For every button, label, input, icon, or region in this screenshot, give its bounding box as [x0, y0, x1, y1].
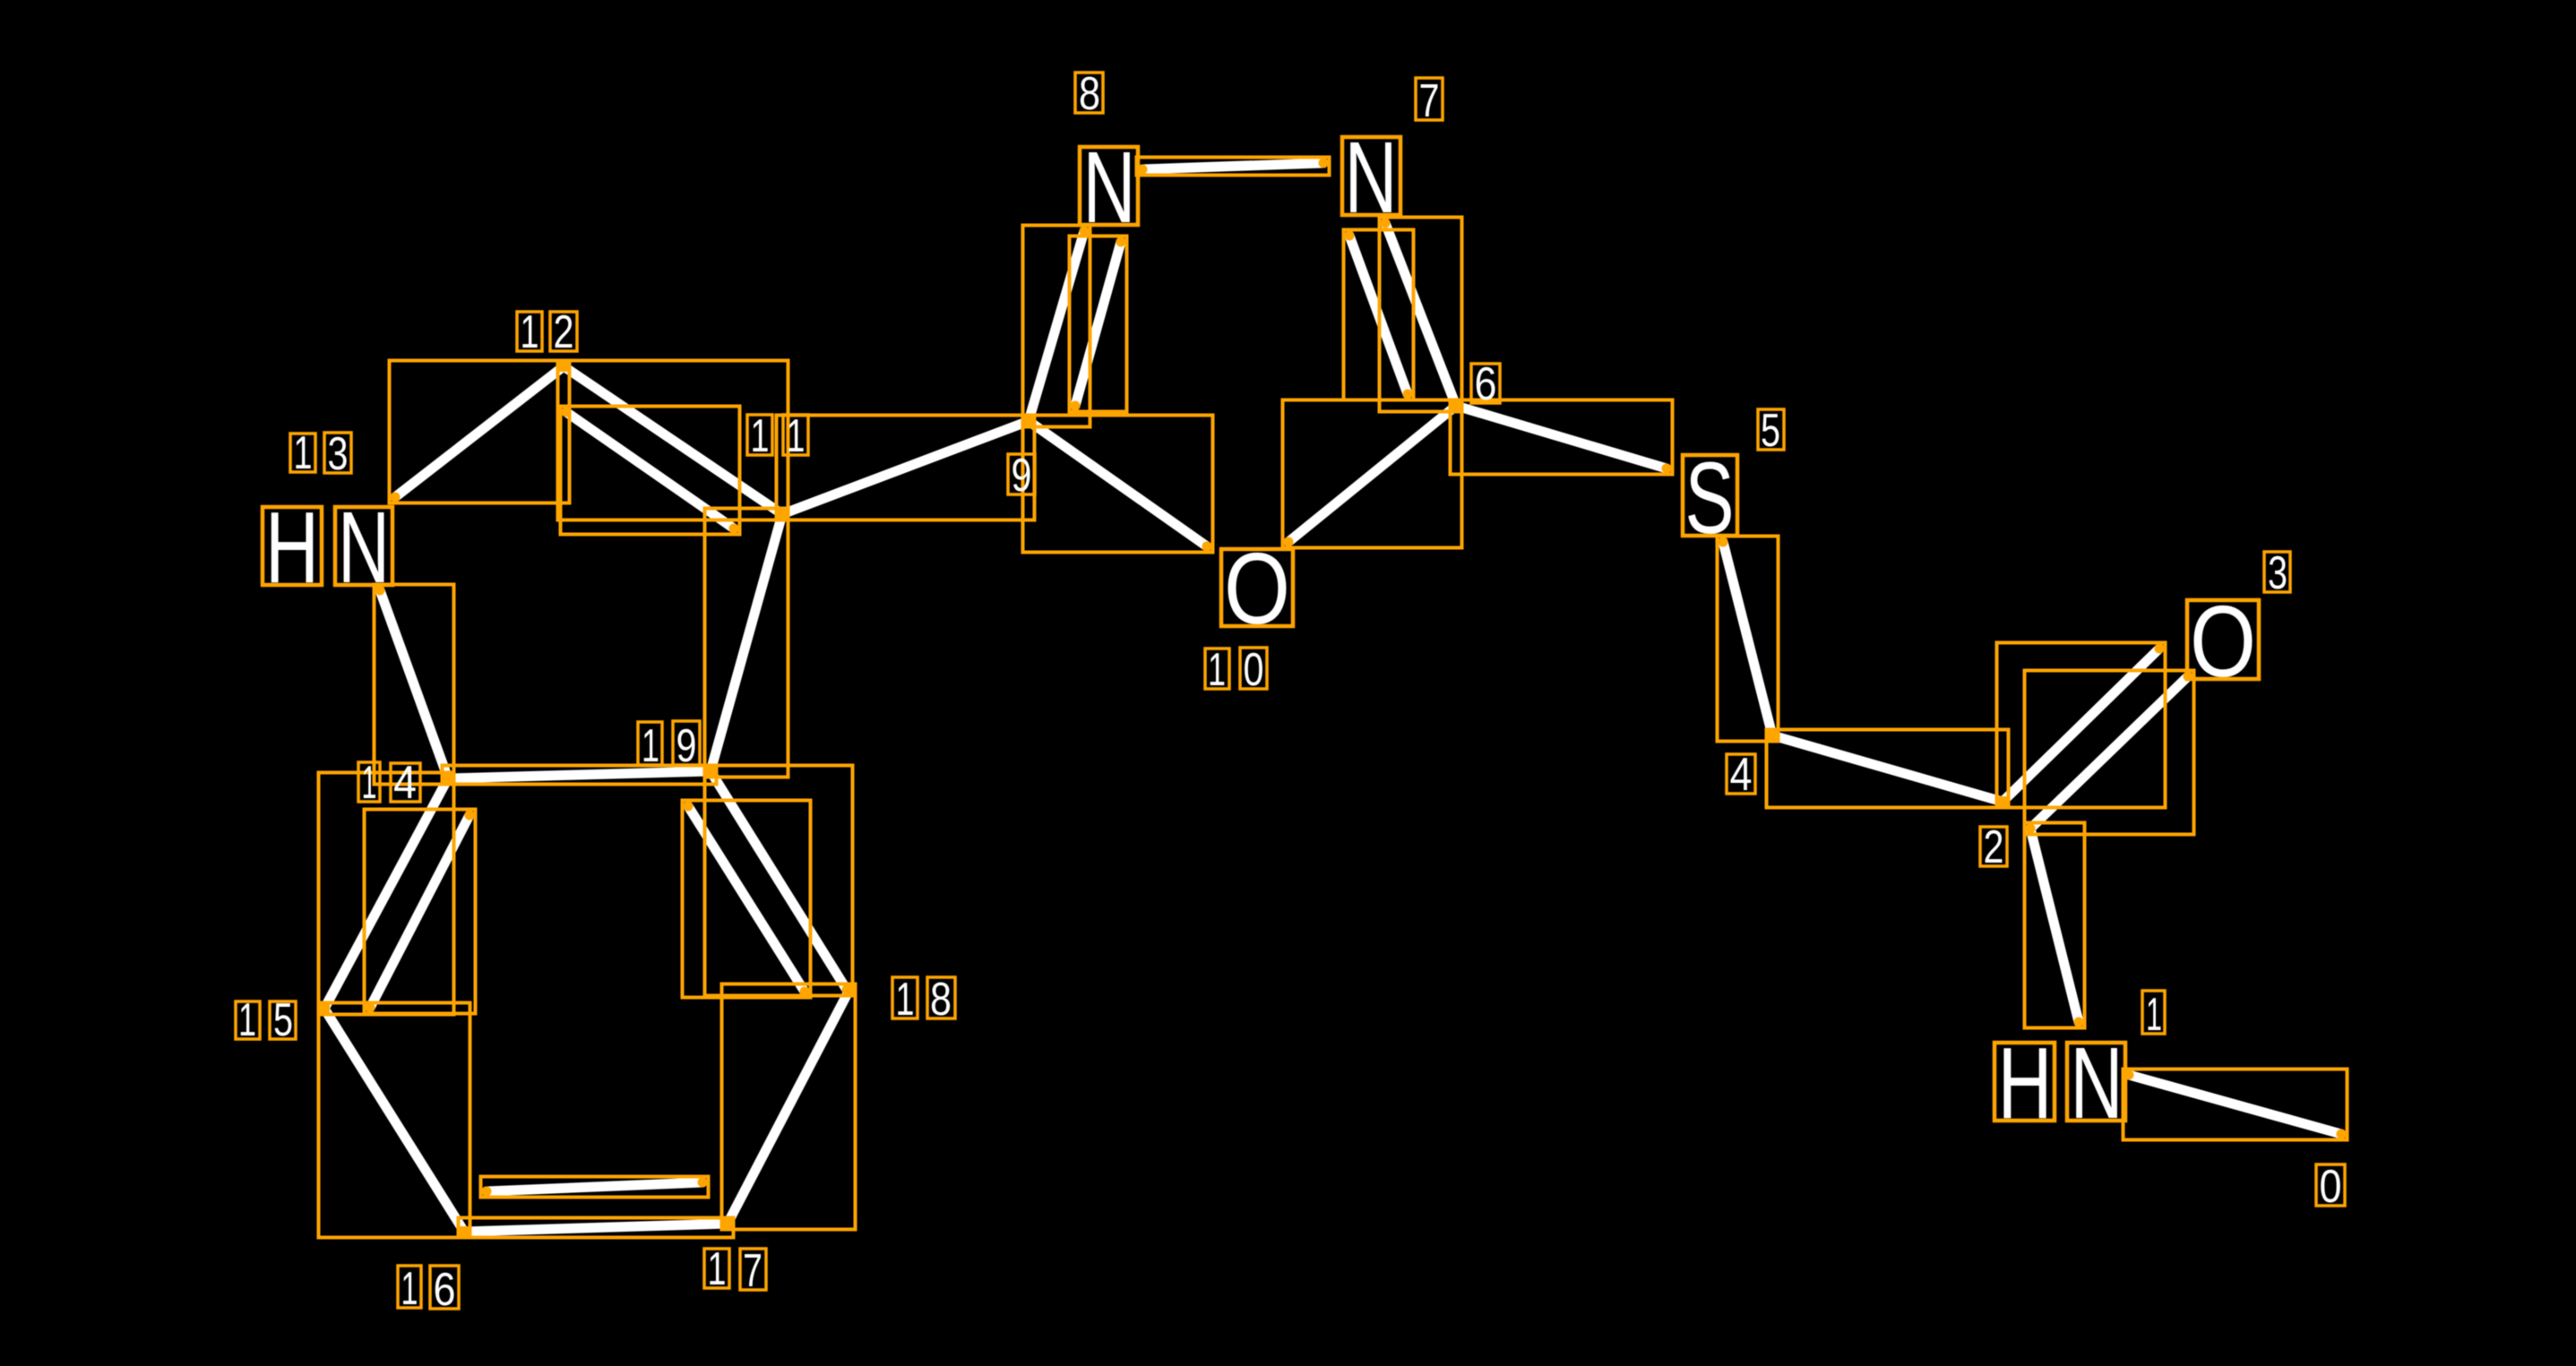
- index 7 (atom N7): [1416, 75, 1443, 127]
- bond C17-C18 annotation box: [722, 984, 856, 1230]
- index 0 (atom C0): [2316, 1161, 2345, 1213]
- svg-text:1: 1: [896, 974, 915, 1026]
- bond N7-N8 annotation box: [1137, 158, 1330, 176]
- svg-text:1: 1: [642, 720, 659, 772]
- index 14 (atom C14): [358, 757, 420, 809]
- index 5 (atom S5): [1758, 405, 1784, 457]
- bond S5-C6 annotation box: [1451, 400, 1673, 475]
- bond C4-S5 annotation box: [1718, 537, 1779, 742]
- index 6 (atom C6): [1471, 358, 1500, 410]
- index 13 (atom N13): [290, 427, 351, 480]
- index 17 (atom C17): [704, 1243, 766, 1297]
- svg-text:3: 3: [2268, 547, 2287, 599]
- svg-text:6: 6: [1475, 358, 1497, 410]
- double bond C16=C17 line: [464, 1182, 728, 1232]
- atom C19 marker: [705, 766, 716, 777]
- svg-text:5: 5: [273, 994, 293, 1046]
- svg-text:9: 9: [676, 720, 697, 772]
- svg-text:1: 1: [294, 427, 313, 479]
- atom C9 marker: [1023, 416, 1034, 426]
- bond N1-C2 line: [2030, 829, 2079, 1022]
- svg-text:1: 1: [238, 994, 256, 1046]
- bond C19-C11 annotation box: [705, 509, 788, 778]
- index 1 (atom N1): [2142, 989, 2165, 1041]
- index 11 (atom C11): [747, 410, 808, 462]
- svg-text:2: 2: [554, 306, 574, 358]
- atom C11 marker: [777, 509, 788, 520]
- double bond C2=O3 annotation box: [1997, 643, 2194, 835]
- atom N1 label H: [1994, 1027, 2055, 1139]
- index 3 (atom O3): [2264, 547, 2290, 599]
- bond C14-C19 line: [448, 771, 711, 778]
- double bond C11=C12 annotation box: [558, 361, 788, 535]
- atom N13 label N: [335, 491, 392, 604]
- atom N7 label: [1342, 121, 1400, 234]
- svg-text:1: 1: [1208, 644, 1226, 696]
- atom C12 marker: [558, 361, 569, 372]
- double bond C6=N7 annotation box: [1344, 218, 1462, 412]
- index 10 (atom O10): [1205, 644, 1267, 696]
- double bond C18=C19 line: [688, 771, 847, 992]
- atom N1 label N: [2067, 1027, 2125, 1139]
- index 18 (atom C18): [892, 974, 955, 1026]
- atom O3 label: [2187, 585, 2259, 698]
- svg-text:1: 1: [787, 410, 806, 462]
- svg-text:4: 4: [393, 757, 417, 809]
- index 2 (atom C2): [1980, 821, 2007, 873]
- bond C2-C4 line: [1772, 735, 2003, 802]
- bond C14-C19 annotation box: [443, 766, 717, 785]
- index 12 (atom C12): [517, 306, 577, 358]
- bond C9-C11 line: [782, 421, 1029, 514]
- atom C16 marker: [459, 1226, 470, 1237]
- svg-text:8: 8: [930, 974, 952, 1026]
- double bond C18=C19 annotation box: [683, 766, 853, 998]
- index 4 (atom C4): [1727, 749, 1755, 801]
- atom C17 marker: [722, 1218, 733, 1229]
- svg-text:3: 3: [328, 428, 349, 480]
- atom S5 label: [1683, 442, 1737, 554]
- svg-text:0: 0: [2320, 1161, 2342, 1213]
- atom C2 marker: [1997, 796, 2008, 807]
- atom O10 label: [1221, 532, 1293, 645]
- atom C4 marker: [1767, 730, 1778, 741]
- double bond C11=C12 line: [564, 366, 782, 528]
- bond C4-S5 line: [1723, 542, 1772, 735]
- bond C12-N13 line: [395, 366, 564, 497]
- index 16 (atom C16): [398, 1263, 459, 1316]
- double bond C16=C17 annotation box: [459, 1177, 734, 1238]
- bond O10-C6 line: [1288, 406, 1456, 542]
- double bond C2=O3 line: [2003, 649, 2188, 829]
- bond N1-C2 annotation box: [2025, 823, 2085, 1028]
- atom C6 marker: [1451, 400, 1461, 411]
- bond C9-O10 line: [1029, 421, 1207, 546]
- bond N13-C14 line: [380, 590, 448, 778]
- bond C17-C18 line: [728, 990, 849, 1224]
- atom N13 label H: [263, 491, 322, 604]
- svg-text:6: 6: [434, 1264, 456, 1316]
- double bond C14=C15 line: [324, 778, 470, 1009]
- bond C9-C11 annotation box: [777, 416, 1035, 520]
- index 19 (atom C19): [638, 720, 700, 772]
- svg-text:0: 0: [1244, 644, 1264, 696]
- bond C0-N1 annotation box: [2124, 1070, 2348, 1140]
- bond C15-C16 line: [324, 1009, 464, 1232]
- atom C14 marker: [443, 773, 453, 784]
- double bond N8=C9 line: [1029, 231, 1121, 421]
- svg-text:7: 7: [1419, 75, 1440, 127]
- bond C12-N13 annotation box: [390, 361, 570, 503]
- svg-text:1: 1: [708, 1243, 727, 1295]
- atom C18 marker: [844, 984, 855, 995]
- svg-text:7: 7: [743, 1245, 762, 1297]
- double bond C6=N7 line: [1349, 223, 1456, 406]
- svg-text:1: 1: [521, 306, 539, 358]
- svg-text:8: 8: [1079, 68, 1100, 120]
- svg-text:1: 1: [2146, 989, 2162, 1041]
- double bond C14=C15 annotation box: [319, 773, 476, 1015]
- svg-text:9: 9: [1012, 450, 1032, 502]
- index 9 (atom C9): [1008, 450, 1035, 502]
- index 15 (atom C15): [236, 994, 296, 1046]
- atom N8 label: [1080, 131, 1138, 244]
- svg-text:5: 5: [1761, 405, 1780, 457]
- svg-text:4: 4: [1730, 749, 1753, 801]
- svg-text:1: 1: [362, 757, 377, 809]
- double bond N8=C9 annotation box: [1023, 226, 1127, 427]
- bond C15-C16 annotation box: [319, 1003, 470, 1238]
- bond C19-C11 line: [711, 514, 782, 771]
- index 8 (atom N8): [1075, 68, 1103, 120]
- bond O10-C6 annotation box: [1283, 400, 1462, 548]
- bond N13-C14 annotation box: [375, 585, 454, 785]
- bond N7-N8 line: [1142, 163, 1323, 169]
- svg-text:1: 1: [751, 410, 770, 462]
- svg-text:2: 2: [1984, 821, 2004, 873]
- bond C2-C4 annotation box: [1767, 730, 2009, 808]
- bond S5-C6 line: [1456, 406, 1667, 468]
- atom C15 marker: [319, 1003, 330, 1014]
- bond C9-O10 annotation box: [1023, 416, 1213, 553]
- svg-text:1: 1: [401, 1263, 418, 1315]
- bond C0-N1 line: [2129, 1075, 2341, 1134]
